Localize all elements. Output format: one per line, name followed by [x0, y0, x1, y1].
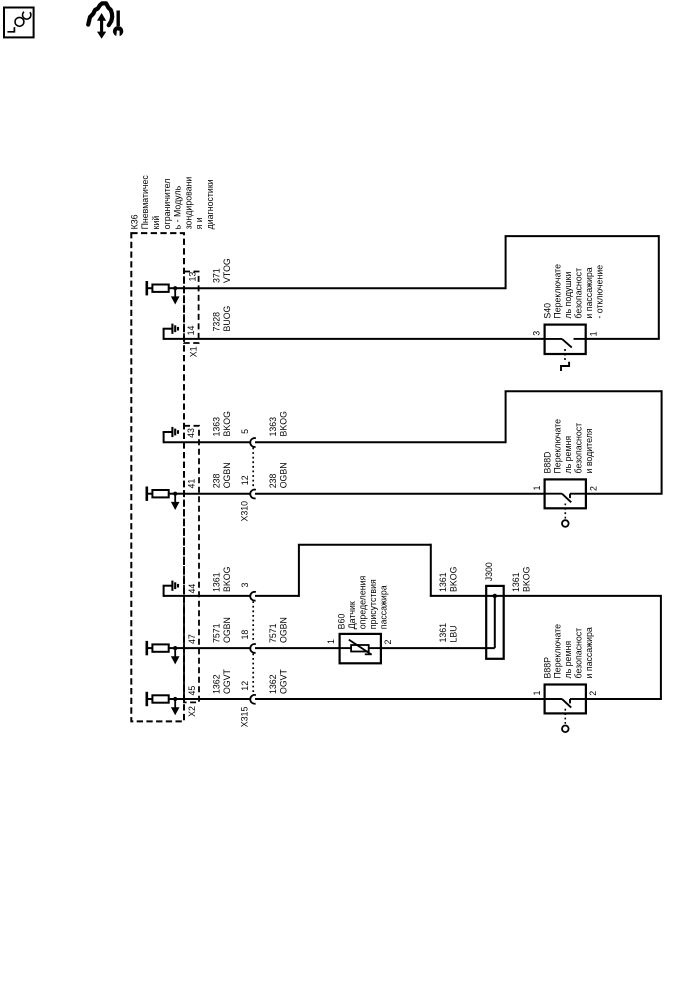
service icon: wrench: [113, 11, 123, 38]
S40 pin 3: [531, 331, 541, 336]
svg-text:- отключение: - отключение: [594, 265, 604, 319]
wire 7328 BUOG label: [212, 305, 232, 331]
X315 pin 12 number: [240, 681, 250, 691]
svg-text:1362: 1362: [212, 674, 222, 694]
svg-text:и пассажира: и пассажира: [584, 267, 594, 318]
pin number 43: [186, 428, 196, 438]
svg-text:X1: X1: [189, 346, 199, 357]
svg-text:ль ремня: ль ремня: [563, 641, 573, 679]
S40 label: [542, 264, 604, 319]
svg-text:определения: определения: [358, 576, 368, 630]
S40 pin 1: [588, 331, 598, 336]
svg-text:3: 3: [531, 331, 541, 336]
svg-text:X2: X2: [187, 706, 197, 717]
svg-text:1363: 1363: [212, 417, 222, 437]
svg-text:14: 14: [186, 326, 196, 336]
X315 pin 3 number: [240, 583, 250, 588]
svg-text:и водителя: и водителя: [584, 428, 594, 473]
pin number 41: [187, 479, 197, 489]
svg-text:7571: 7571: [268, 623, 278, 643]
svg-text:безопасност: безопасност: [574, 628, 584, 679]
svg-text:238: 238: [268, 474, 278, 489]
X310 pin 5 number: [240, 429, 250, 434]
svg-text:J300: J300: [484, 562, 494, 581]
label X315: [240, 707, 250, 728]
svg-text:B88D: B88D: [542, 451, 552, 473]
svg-text:Переключате: Переключате: [553, 264, 563, 319]
label X2: [187, 706, 197, 717]
svg-text:2: 2: [588, 691, 598, 696]
svg-text:1: 1: [326, 639, 336, 644]
wire 1361 BKOG (to X315): [164, 595, 252, 597]
svg-text:1: 1: [532, 691, 542, 696]
B88D label: [542, 419, 594, 474]
switch S40: [545, 325, 586, 371]
switch B88P: [545, 685, 586, 733]
module K36 label: [129, 175, 215, 230]
svg-text:41: 41: [187, 479, 197, 489]
wire 1363 BKOG label (left): [212, 411, 232, 437]
svg-text:1361: 1361: [438, 623, 448, 643]
wire 1361 BKOG label (mid): [438, 566, 458, 592]
wire 1361 LBU label: [438, 623, 458, 643]
wire 1362 OGVT label (right): [268, 668, 288, 694]
B88P label: [542, 624, 594, 679]
svg-text:LBU: LBU: [448, 625, 458, 642]
svg-text:Переключате: Переключате: [553, 419, 563, 474]
wire 1361 BKOG (X315 to J300, bridge over B60): [255, 544, 661, 597]
svg-text:2: 2: [383, 640, 393, 645]
LOC locator box: [4, 8, 34, 38]
wire 238 OGBN (X310 to B88D): [255, 493, 545, 495]
svg-text:Пневматичес: Пневматичес: [140, 175, 150, 230]
connector X1 pin box: [184, 272, 199, 344]
svg-text:43: 43: [186, 428, 196, 438]
svg-text:ограничител: ограничител: [162, 179, 172, 230]
switch B88D: [545, 479, 586, 526]
svg-text:BKOG: BKOG: [448, 566, 458, 592]
svg-text:OGVT: OGVT: [222, 668, 232, 694]
svg-text:Датчик: Датчик: [347, 601, 357, 629]
wire 1363 BKOG (X310 to B88D): [255, 390, 663, 493]
svg-text:44: 44: [187, 584, 197, 594]
wire 1363 BKOG (to X310): [164, 441, 252, 443]
pin number 14: [186, 326, 196, 336]
svg-text:5: 5: [240, 429, 250, 434]
label X1: [189, 346, 199, 357]
svg-text:OGBN: OGBN: [222, 462, 232, 488]
X315 dotted line lower: [252, 653, 254, 693]
X315 dotted line upper: [252, 601, 254, 642]
B88D pin 2: [589, 486, 599, 491]
connector X2 pin box: [184, 426, 199, 703]
svg-text:BKOG: BKOG: [521, 566, 531, 592]
ground symbol K36 pin 43: [163, 427, 178, 443]
svg-text:1362: 1362: [268, 674, 278, 694]
svg-text:238: 238: [212, 474, 222, 489]
svg-text:12: 12: [240, 475, 250, 485]
wire 371 VTOG: [184, 235, 660, 339]
wire 7571 OGBN label (right): [268, 617, 288, 643]
B60 label: [337, 576, 389, 630]
wire 7571 OGBN (X315 to B60): [255, 647, 340, 649]
label X310: [239, 501, 249, 522]
svg-text:1361: 1361: [511, 572, 521, 592]
module K36 dashed box: [131, 233, 184, 721]
svg-text:К36: К36: [129, 214, 139, 229]
svg-text:3: 3: [240, 583, 250, 588]
svg-text:OGBN: OGBN: [278, 462, 288, 488]
wire 1361 BKOG (J300 to B88P): [586, 595, 662, 699]
svg-text:BUOG: BUOG: [222, 305, 232, 331]
wire 1363 BKOG label (right): [268, 411, 288, 437]
svg-text:1361: 1361: [212, 572, 222, 592]
svg-text:безопасност: безопасност: [574, 423, 584, 474]
X315 pin 18 number: [240, 630, 250, 640]
svg-text:и пассажира: и пассажира: [584, 627, 594, 678]
svg-text:X315: X315: [240, 707, 250, 728]
svg-text:зондировани: зондировани: [183, 177, 193, 230]
ground symbol K36 pin 44: [163, 581, 178, 597]
svg-text:пассажира: пассажира: [378, 585, 388, 629]
ground symbol K36 pin 14: [163, 324, 178, 340]
svg-text:45: 45: [187, 686, 197, 696]
svg-text:я и: я и: [194, 217, 204, 229]
svg-text:ль ремня: ль ремня: [563, 436, 573, 474]
svg-text:12: 12: [240, 681, 250, 691]
internal driver K36 pin 47: [147, 641, 184, 665]
wire 1361 BKOG label (after J300): [511, 566, 531, 592]
wire 7571 OGBN (to X315): [184, 647, 251, 649]
connector arc X315 pin 3: [250, 592, 256, 601]
B88P pin 2: [588, 691, 598, 696]
wire 371 VTOG label: [212, 258, 232, 283]
pin number 13: [188, 272, 198, 282]
wire 1362 OGVT (X315 to B88P): [255, 698, 545, 700]
B88P pin 1: [532, 691, 542, 696]
wire 238 OGBN label (right): [268, 462, 288, 488]
svg-text:ль подушки: ль подушки: [563, 272, 573, 319]
wire 1362 OGVT (to X315): [184, 698, 251, 700]
connector arc X315 pin 18: [250, 644, 256, 653]
X310 dotted line: [252, 448, 254, 488]
wire 238 OGBN (to X310): [184, 493, 251, 495]
wire 1362 OGVT label (left): [212, 668, 232, 694]
svg-text:ь - Модуль: ь - Модуль: [173, 185, 183, 229]
svg-text:B60: B60: [337, 614, 347, 630]
svg-text:BKOG: BKOG: [222, 566, 232, 592]
wire 1361 BKOG label (left): [212, 566, 232, 592]
svg-text:OGBN: OGBN: [222, 617, 232, 643]
B60 pin 2: [383, 640, 393, 645]
label J300: [484, 562, 494, 581]
internal driver K36 pin 45: [147, 692, 184, 716]
svg-text:1363: 1363: [268, 417, 278, 437]
sensor B60 (thermistor): [340, 634, 381, 663]
svg-text:7328: 7328: [212, 312, 222, 332]
connector arc X315 pin 12: [250, 695, 256, 704]
connector arc X310 pin 5: [250, 438, 256, 447]
B60 pin 1: [326, 639, 336, 644]
svg-text:OGBN: OGBN: [278, 617, 288, 643]
svg-text:S40: S40: [542, 303, 552, 319]
svg-text:1361: 1361: [438, 572, 448, 592]
B88D pin 1: [532, 486, 542, 491]
svg-text:18: 18: [240, 630, 250, 640]
service icon: hood outline: [88, 3, 112, 25]
svg-text:присутствия: присутствия: [368, 579, 378, 629]
svg-text:371: 371: [212, 268, 222, 283]
svg-text:BKOG: BKOG: [222, 411, 232, 437]
svg-text:Переключате: Переключате: [553, 624, 563, 679]
wire 7571 OGBN label (left): [212, 617, 232, 643]
svg-text:13: 13: [188, 272, 198, 282]
svg-text:безопасност: безопасност: [574, 268, 584, 319]
pin number 44: [187, 584, 197, 594]
svg-text:BKOG: BKOG: [278, 411, 288, 437]
connector arc X310 pin 12: [250, 490, 256, 499]
X310 pin 12 number: [240, 475, 250, 485]
internal driver K36 pin 41: [147, 487, 184, 511]
internal driver K36 pin 13: [147, 281, 184, 305]
svg-text:OGVT: OGVT: [278, 668, 288, 694]
svg-text:X310: X310: [239, 501, 249, 522]
svg-text:VTOG: VTOG: [222, 258, 232, 283]
svg-text:B88P: B88P: [542, 657, 552, 679]
svg-text:1: 1: [532, 486, 542, 491]
service icon: double arrow: [97, 13, 106, 39]
pin number 45: [187, 686, 197, 696]
wire 1361 LBU (B60 to J300): [381, 647, 495, 649]
wire 7328 BUOG: [164, 338, 545, 340]
wire 238 OGBN label (left): [212, 462, 232, 488]
svg-text:1: 1: [588, 331, 598, 336]
svg-text:47: 47: [187, 634, 197, 644]
svg-text:2: 2: [589, 486, 599, 491]
svg-text:диагностики: диагностики: [205, 179, 215, 229]
svg-text:кий: кий: [151, 216, 161, 230]
svg-text:7571: 7571: [212, 623, 222, 643]
splice pack J300: [486, 586, 504, 659]
pin number 47: [187, 634, 197, 644]
